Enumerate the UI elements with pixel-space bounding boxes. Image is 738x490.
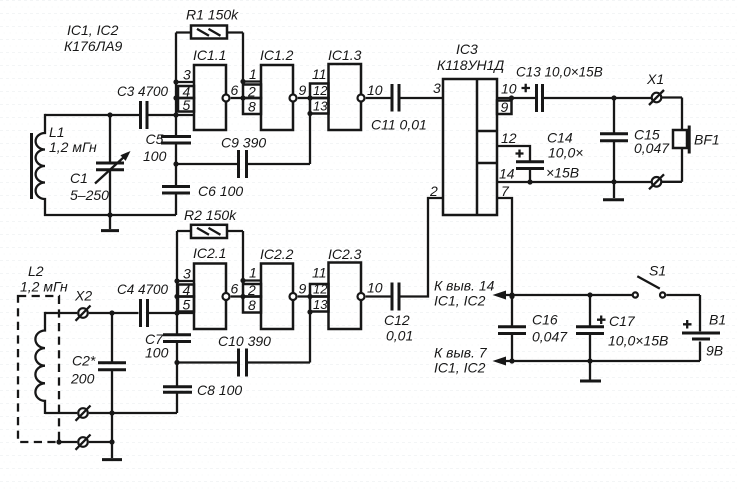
wire tank1 top node	[45, 114, 194, 116]
svg-text:3: 3	[183, 266, 191, 282]
svg-text:×15В: ×15В	[546, 165, 579, 181]
svg-text:12: 12	[501, 130, 517, 146]
capacitor C17	[576, 295, 668, 361]
svg-text:C17: C17	[609, 313, 636, 329]
node C17 top junction	[587, 292, 592, 297]
amplifier IC3	[437, 41, 504, 215]
svg-text:C12: C12	[384, 312, 410, 328]
svg-text:IC2.1: IC2.1	[193, 245, 226, 261]
svg-text:L2: L2	[28, 263, 44, 279]
wire tank2 mid	[45, 412, 177, 414]
coil shield dashed box	[18, 296, 59, 442]
arrow to pins 14	[493, 291, 507, 300]
NAND gate IC1.1	[176, 47, 243, 130]
svg-text:IC2.3: IC2.3	[328, 246, 362, 262]
svg-text:8: 8	[248, 99, 256, 115]
svg-text:100: 100	[145, 345, 169, 361]
svg-text:1: 1	[249, 66, 257, 82]
node IC2.2 pin2 junction	[240, 294, 245, 299]
node C5-C6 junction	[173, 161, 178, 166]
svg-text:1,2 мГн: 1,2 мГн	[20, 279, 68, 295]
svg-text:IC1.3: IC1.3	[328, 47, 362, 63]
svg-text:10: 10	[501, 81, 517, 97]
svg-text:1,2 мГн: 1,2 мГн	[49, 139, 97, 155]
switch S1	[633, 263, 700, 298]
capacitor C15	[600, 98, 670, 182]
svg-text:11: 11	[312, 265, 327, 281]
svg-text:5: 5	[183, 97, 191, 113]
node C16 bottom junction	[509, 358, 514, 363]
NAND gate IC2.3	[307, 246, 390, 329]
svg-text:R1 150k: R1 150k	[186, 7, 239, 23]
node IC1.2 pin1 junction	[240, 79, 245, 84]
capacitor C4	[117, 282, 169, 327]
svg-text:К выв. 14: К выв. 14	[434, 278, 495, 294]
capacitor C14	[497, 130, 583, 185]
svg-text:IC2.2: IC2.2	[260, 246, 294, 262]
wire supply bottom rail	[505, 360, 700, 362]
pin 10 wire	[497, 81, 536, 101]
node pin7 top junction	[509, 292, 514, 297]
node C4 output junction	[174, 310, 179, 315]
svg-text:R2 150k: R2 150k	[184, 207, 237, 223]
capacitor C11	[371, 80, 443, 133]
pin 2 wire	[400, 183, 443, 297]
battery B1	[682, 295, 726, 361]
svg-text:C11 0,01: C11 0,01	[371, 117, 427, 133]
capacitor C7	[145, 331, 191, 361]
node C3 output junction	[173, 112, 178, 117]
pin 9 box	[497, 98, 512, 115]
node shield junction	[109, 439, 114, 444]
svg-text:C13 10,0×15В: C13 10,0×15В	[516, 65, 603, 80]
svg-text:3: 3	[183, 67, 191, 83]
label IC1, IC2 К176ЛА9	[64, 22, 123, 54]
svg-text:BF1: BF1	[694, 132, 720, 148]
node pin3 junction	[173, 79, 178, 84]
svg-text:X2: X2	[74, 288, 92, 304]
svg-text:10: 10	[367, 82, 383, 98]
wire R1 right column	[243, 33, 261, 85]
svg-text:К118УН1Д: К118УН1Д	[437, 57, 504, 73]
connector X2	[74, 288, 92, 450]
label L2	[20, 263, 68, 295]
svg-text:C3 4700: C3 4700	[117, 84, 169, 99]
svg-text:7: 7	[501, 183, 510, 199]
svg-text:C10 390: C10 390	[218, 333, 271, 349]
capacitor C6	[162, 183, 243, 199]
capacitor C13	[516, 65, 651, 113]
svg-text:100: 100	[143, 148, 167, 164]
node IC2.2 pin1 junction	[240, 278, 245, 283]
inductor L1	[32, 114, 97, 216]
resistor R1	[176, 7, 243, 39]
svg-text:6: 6	[231, 82, 239, 98]
label К выв. 14	[434, 278, 495, 309]
svg-text:IC1, IC2: IC1, IC2	[434, 360, 486, 376]
svg-text:0,01: 0,01	[386, 328, 413, 344]
svg-text:L1: L1	[49, 124, 65, 140]
capacitor C9	[176, 114, 310, 179]
pin 14 wire	[497, 166, 651, 183]
node pin4 junction	[173, 95, 178, 100]
svg-text:C8 100: C8 100	[197, 382, 242, 398]
capacitor C10	[177, 312, 310, 377]
svg-text:0,047: 0,047	[634, 140, 670, 156]
svg-text:C14: C14	[547, 130, 573, 146]
wire left column2	[176, 231, 178, 413]
svg-text:0,047: 0,047	[532, 329, 568, 345]
svg-text:13: 13	[313, 297, 328, 312]
svg-text:13: 13	[313, 99, 328, 114]
capacitor C8	[163, 382, 242, 398]
svg-text:X1: X1	[646, 71, 664, 87]
wire shield	[59, 413, 112, 442]
node C7-C8 junction	[174, 360, 179, 365]
node IC1.2 pin2 junction	[240, 95, 245, 100]
svg-text:5: 5	[183, 297, 191, 313]
ground tank2	[102, 442, 122, 460]
NAND gate IC2.2	[243, 246, 310, 329]
wire tank2 top node	[45, 312, 194, 314]
capacitor C16	[498, 294, 568, 361]
node tank2 top junction	[109, 310, 114, 315]
ground tank1	[101, 215, 119, 231]
svg-text:5–250: 5–250	[70, 187, 109, 203]
svg-text:К выв. 7: К выв. 7	[434, 345, 488, 361]
resistor R2	[177, 207, 243, 238]
svg-text:9: 9	[299, 82, 307, 98]
svg-text:IC1.1: IC1.1	[193, 47, 226, 63]
svg-text:IC3: IC3	[456, 41, 478, 57]
capacitor C12	[384, 283, 413, 344]
capacitor C2	[70, 313, 126, 413]
node tank2 mid junction	[109, 410, 114, 415]
ground output	[603, 179, 624, 200]
svg-text:200: 200	[70, 371, 95, 387]
svg-text:6: 6	[231, 281, 239, 297]
inductor L2	[35, 312, 45, 414]
ground supply	[580, 361, 601, 381]
svg-text:C5: C5	[146, 131, 164, 147]
svg-text:К176ЛА9: К176ЛА9	[64, 38, 123, 54]
svg-text:IC1, IC2: IC1, IC2	[434, 293, 486, 309]
capacitor C3	[117, 84, 169, 129]
svg-text:C1: C1	[70, 170, 88, 186]
svg-text:10: 10	[367, 280, 383, 296]
svg-text:9В: 9В	[706, 343, 723, 359]
svg-text:8: 8	[248, 297, 256, 313]
svg-text:9: 9	[299, 281, 307, 297]
svg-text:10,0×: 10,0×	[548, 145, 583, 161]
svg-text:IC1, IC2: IC1, IC2	[67, 22, 119, 38]
NAND gate IC1.2	[243, 47, 310, 130]
pin 7 wire	[497, 183, 512, 327]
svg-text:S1: S1	[649, 263, 666, 279]
label К выв. 7	[434, 345, 488, 376]
svg-text:1: 1	[249, 265, 257, 281]
wire tank1 bottom	[44, 214, 176, 216]
svg-text:2: 2	[429, 183, 438, 199]
wire left column node	[175, 33, 177, 216]
node shield-box junction	[56, 439, 61, 444]
NAND gate IC2.1	[177, 245, 243, 329]
svg-text:3: 3	[433, 80, 441, 96]
svg-text:11: 11	[312, 66, 327, 82]
node pin3-2 junction	[174, 278, 179, 283]
svg-text:10,0×15В: 10,0×15В	[608, 333, 668, 349]
svg-text:14: 14	[499, 166, 515, 182]
svg-text:C16: C16	[532, 312, 558, 328]
svg-text:12: 12	[313, 282, 328, 297]
svg-text:IC1.2: IC1.2	[260, 47, 294, 63]
svg-text:C9 390: C9 390	[221, 135, 266, 151]
svg-text:9: 9	[501, 99, 509, 115]
connector X1	[646, 71, 682, 189]
capacitor C1 variable	[70, 115, 131, 215]
node C17 bottom junction	[587, 358, 592, 363]
wire supply top rail	[505, 294, 633, 296]
svg-text:12: 12	[313, 83, 328, 98]
earphone BF1	[673, 98, 720, 182]
arrow to pins 7	[493, 357, 507, 366]
node pin4-2 junction	[174, 294, 179, 299]
svg-text:C4 4700: C4 4700	[117, 282, 169, 297]
node tank1 bottom junction	[107, 212, 112, 217]
capacitor C5	[143, 131, 191, 164]
wire R2 right column	[243, 231, 261, 283]
svg-text:C6 100: C6 100	[198, 183, 243, 199]
NAND gate IC1.3	[307, 47, 390, 130]
node tank1 top junction	[107, 112, 112, 117]
svg-text:C2*: C2*	[72, 353, 96, 369]
svg-text:B1: B1	[709, 312, 726, 328]
